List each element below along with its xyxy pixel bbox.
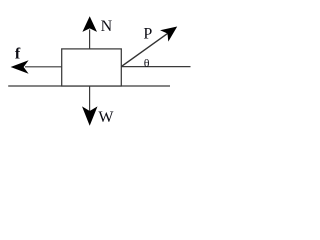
svg-text:N: N [101,18,113,35]
svg-text:θ: θ [144,56,150,70]
svg-text:f: f [15,46,21,63]
svg-text:W: W [98,109,114,126]
svg-text:P: P [143,25,152,42]
